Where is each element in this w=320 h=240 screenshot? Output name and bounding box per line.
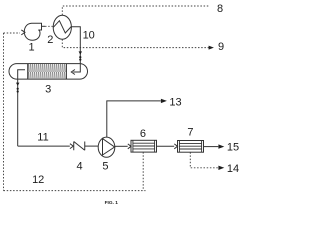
wire: pump 5 to filter 6: [115, 145, 128, 147]
svg-text:12: 12: [32, 174, 44, 186]
svg-text:13: 13: [169, 97, 181, 109]
vessel 3 shell: [9, 64, 88, 80]
wire: stream 8 dashed from top of exchanger 2: [62, 6, 209, 15]
svg-text:7: 7: [187, 127, 193, 139]
svg-text:5: 5: [102, 161, 108, 173]
wire: filter 6 to filter 7: [157, 145, 175, 147]
svg-text:8: 8: [217, 3, 223, 15]
vessel 3 internal outlet pipe (left): [18, 70, 25, 79]
junction dots on wire 10: [79, 56, 81, 58]
arrowhead stream 14: [218, 166, 224, 170]
wire: blower 1 outlet to exchanger 2: [42, 25, 46, 27]
filter 6 body: [131, 140, 157, 152]
svg-text:9: 9: [218, 41, 224, 53]
svg-text:FIG. 1: FIG. 1: [105, 200, 119, 206]
filter 7 body: [178, 141, 204, 153]
arrowhead into valve 4: [70, 144, 73, 149]
arrowhead stream 15: [218, 144, 224, 148]
pump 5 triangle: [103, 139, 115, 155]
arrowhead down on vessel outlet: [16, 83, 19, 86]
arrowhead stream 9: [209, 46, 214, 50]
wire: dashed feed line into blower 1: [4, 32, 21, 34]
arrowhead into filter 6: [128, 144, 131, 149]
arrowhead into blower 1: [21, 30, 25, 35]
vessel 3 packing (hatched block): [28, 64, 67, 79]
blower 1 (volute body): [24, 23, 41, 40]
vessel 3 internal inlet pipe (right) with arrow: [73, 64, 80, 72]
wire: left dashed boundary (stream 12): [3, 33, 5, 191]
wire 10: exchanger 2 to vessel 3: [71, 27, 80, 64]
arrowhead into filter 7: [174, 144, 177, 149]
wire: valve 4 to pump 5: [85, 145, 98, 147]
svg-text:14: 14: [227, 163, 239, 175]
wire 11: to valve 4: [18, 145, 70, 147]
svg-text:1: 1: [29, 41, 35, 53]
wire 15: filter 7 outlet: [204, 146, 219, 148]
svg-text:11: 11: [37, 131, 48, 143]
pump 5: [98, 137, 115, 157]
junction dots on vessel outlet: [17, 88, 19, 90]
wire: bottom dashed boundary (stream 12): [4, 190, 146, 192]
arrowhead stream 13: [161, 99, 167, 103]
wire 13: pump 5 up and right: [107, 101, 161, 137]
svg-text:10: 10: [83, 30, 95, 42]
svg-text:2: 2: [47, 34, 53, 46]
svg-text:4: 4: [77, 161, 83, 173]
wire: dashed from filter 6 down to boundary: [142, 152, 144, 191]
heat exchanger 2: [53, 15, 71, 39]
wire: stream 9 dashed from bottom of exchanger 2: [62, 39, 212, 47]
wire 14: dashed from filter 7 down and right: [190, 152, 218, 168]
wire: vessel 3 bottom outlet down: [17, 79, 19, 146]
svg-text:3: 3: [45, 84, 51, 96]
svg-text:15: 15: [227, 142, 239, 154]
arrowhead down on wire 10: [79, 51, 82, 54]
valve 4: [74, 142, 85, 151]
heat exchanger 2 zigzag: [53, 21, 71, 33]
svg-text:6: 6: [140, 128, 146, 140]
